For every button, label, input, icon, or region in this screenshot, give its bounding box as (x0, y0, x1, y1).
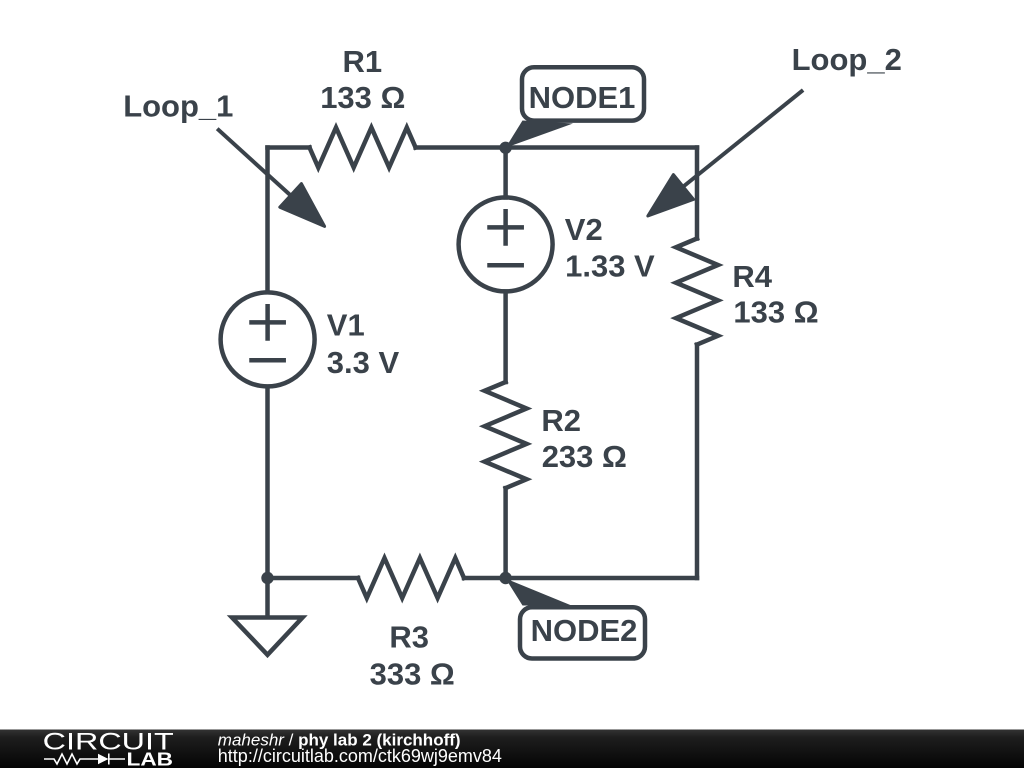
label box NODE1 (522, 67, 644, 120)
arrowhead Loop_1 (280, 184, 325, 227)
svg-text:R2: R2 (541, 403, 581, 438)
wire: R1 to node NODE1 (416, 145, 506, 150)
svg-text:1.33 V: 1.33 V (565, 249, 655, 284)
V1 plus sign (252, 306, 284, 338)
junction dot ground node (261, 572, 273, 584)
svg-text:333 Ω: 333 Ω (370, 657, 455, 692)
wire: NODE2 to R3 (464, 576, 506, 581)
svg-text:LAB: LAB (127, 750, 174, 768)
wire: top-left corner horizontal to R1 (268, 145, 310, 150)
wire: left vertical upper (corner to V1 top) (265, 148, 270, 293)
svg-text:133 Ω: 133 Ω (733, 295, 818, 330)
footer logo diode triangle (98, 754, 109, 764)
voltage source V2 circle (459, 197, 553, 291)
resistor R4 (676, 239, 718, 345)
annotation line Loop_2 (684, 90, 803, 186)
svg-text:R1: R1 (343, 44, 383, 79)
wire: bottom-right corner to NODE2 (506, 576, 697, 581)
wire: ground stub (265, 578, 270, 616)
annotation line Loop_1 (217, 129, 290, 196)
wire: ground node up to V1 bottom (265, 387, 270, 578)
svg-text:http://circuitlab.com/ctk69wj9: http://circuitlab.com/ctk69wj9emv84 (218, 746, 502, 766)
V1 minus sign (252, 358, 284, 363)
V2 minus sign (490, 263, 522, 268)
junction dot NODE1 (499, 142, 511, 154)
resistor R1 (310, 128, 416, 168)
svg-text:133 Ω: 133 Ω (320, 80, 405, 115)
arrowhead Loop_2 (648, 175, 694, 216)
svg-text:R4: R4 (732, 259, 772, 294)
svg-text:Loop_1: Loop_1 (123, 89, 233, 124)
svg-text:V1: V1 (327, 307, 365, 342)
wire: V2 bottom to R2 (503, 292, 508, 383)
voltage source V1 circle (221, 292, 315, 386)
svg-text:R3: R3 (389, 620, 429, 655)
svg-text:NODE1: NODE1 (529, 80, 636, 115)
footer logo resistor-diode symbol (44, 754, 125, 765)
callout tail NODE2 (506, 579, 572, 606)
wire: R2 to NODE2 (503, 488, 508, 578)
wire: NODE1 to top-right corner (506, 145, 697, 150)
resistor R2 (485, 382, 527, 488)
svg-text:Loop_2: Loop_2 (792, 42, 902, 77)
svg-text:233 Ω: 233 Ω (542, 439, 627, 474)
svg-text:3.3 V: 3.3 V (327, 345, 400, 380)
callout tail NODE1 (506, 121, 573, 148)
ground symbol triangle (232, 618, 303, 655)
wire: R4 to bottom-right corner (695, 345, 700, 578)
junction dot NODE2 (499, 572, 511, 584)
wire: R3 to ground node (268, 576, 359, 581)
V2 plus sign (490, 211, 522, 243)
svg-text:NODE2: NODE2 (531, 613, 638, 648)
footer bar (0, 730, 1024, 768)
wire: NODE1 down to V2 top (503, 148, 508, 198)
svg-text:V2: V2 (565, 212, 603, 247)
label box NODE2 (520, 607, 645, 658)
wire: right vertical upper (corner to R4) (695, 148, 700, 239)
resistor R3 (358, 558, 464, 598)
